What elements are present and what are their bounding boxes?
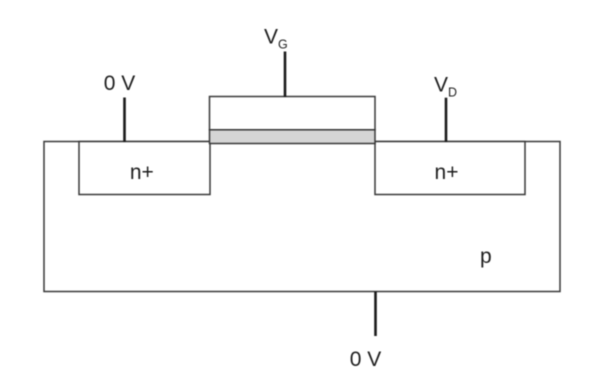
svg-text:0 V: 0 V	[104, 72, 136, 95]
gate oxide layer	[210, 130, 376, 144]
svg-text:p: p	[480, 245, 492, 268]
n+ source region	[79, 142, 210, 195]
wire source terminal	[123, 98, 126, 143]
p substrate body	[44, 142, 560, 292]
wire body terminal	[374, 292, 377, 337]
svg-text:n+: n+	[435, 161, 459, 184]
svg-text:0 V: 0 V	[350, 348, 382, 371]
svg-text:VG: VG	[264, 26, 288, 52]
wire gate terminal	[284, 52, 287, 98]
gate electrode	[210, 97, 376, 130]
wire drain terminal	[445, 98, 448, 142]
svg-text:n+: n+	[130, 161, 154, 184]
n+ drain region	[375, 142, 525, 195]
svg-text:VD: VD	[434, 74, 457, 100]
